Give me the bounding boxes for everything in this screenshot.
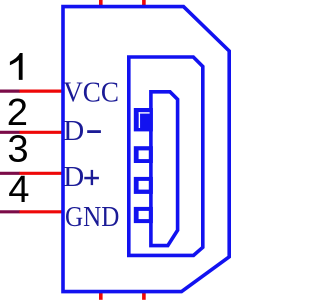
wire pin2 purple stub <box>0 131 20 134</box>
svg-text:VCC: VCC <box>63 77 119 109</box>
wire pin3 red <box>20 172 65 175</box>
svg-text:4: 4 <box>8 168 29 211</box>
pin number 1 <box>10 53 23 80</box>
plus sign of D+ vertical <box>91 170 93 185</box>
pin 2 contact <box>134 146 153 163</box>
wire pin4 purple stub <box>0 210 20 213</box>
pin 1 highlight white L horizontal <box>139 112 150 113</box>
wire pin1 purple stub <box>0 89 20 92</box>
wire pin1 red <box>20 89 65 92</box>
connector tongue <box>151 92 178 246</box>
wire pin4 red <box>20 210 65 213</box>
svg-text:3: 3 <box>7 128 28 171</box>
top mounting tick 1 <box>99 0 103 7</box>
svg-text:D: D <box>63 115 84 147</box>
connector J1 outer shell <box>63 7 229 292</box>
connector shield inner outline <box>129 57 203 255</box>
pin 4 contact <box>134 207 153 223</box>
pin 1 contact (filled/highlighted) <box>134 108 153 131</box>
wire pin2 red <box>20 131 65 134</box>
bottom mounting tick 2 <box>142 292 146 300</box>
pin 1 highlight white L vertical <box>139 112 140 128</box>
plus sign of D+ horizontal <box>84 177 99 180</box>
svg-text:D: D <box>63 161 84 193</box>
top mounting tick 2 <box>142 0 146 7</box>
bottom mounting tick 1 <box>99 292 103 300</box>
pin 3 contact <box>134 177 153 194</box>
svg-text:GND: GND <box>65 201 119 233</box>
minus dash of D- <box>87 130 101 133</box>
wire pin3 purple stub <box>0 172 20 175</box>
